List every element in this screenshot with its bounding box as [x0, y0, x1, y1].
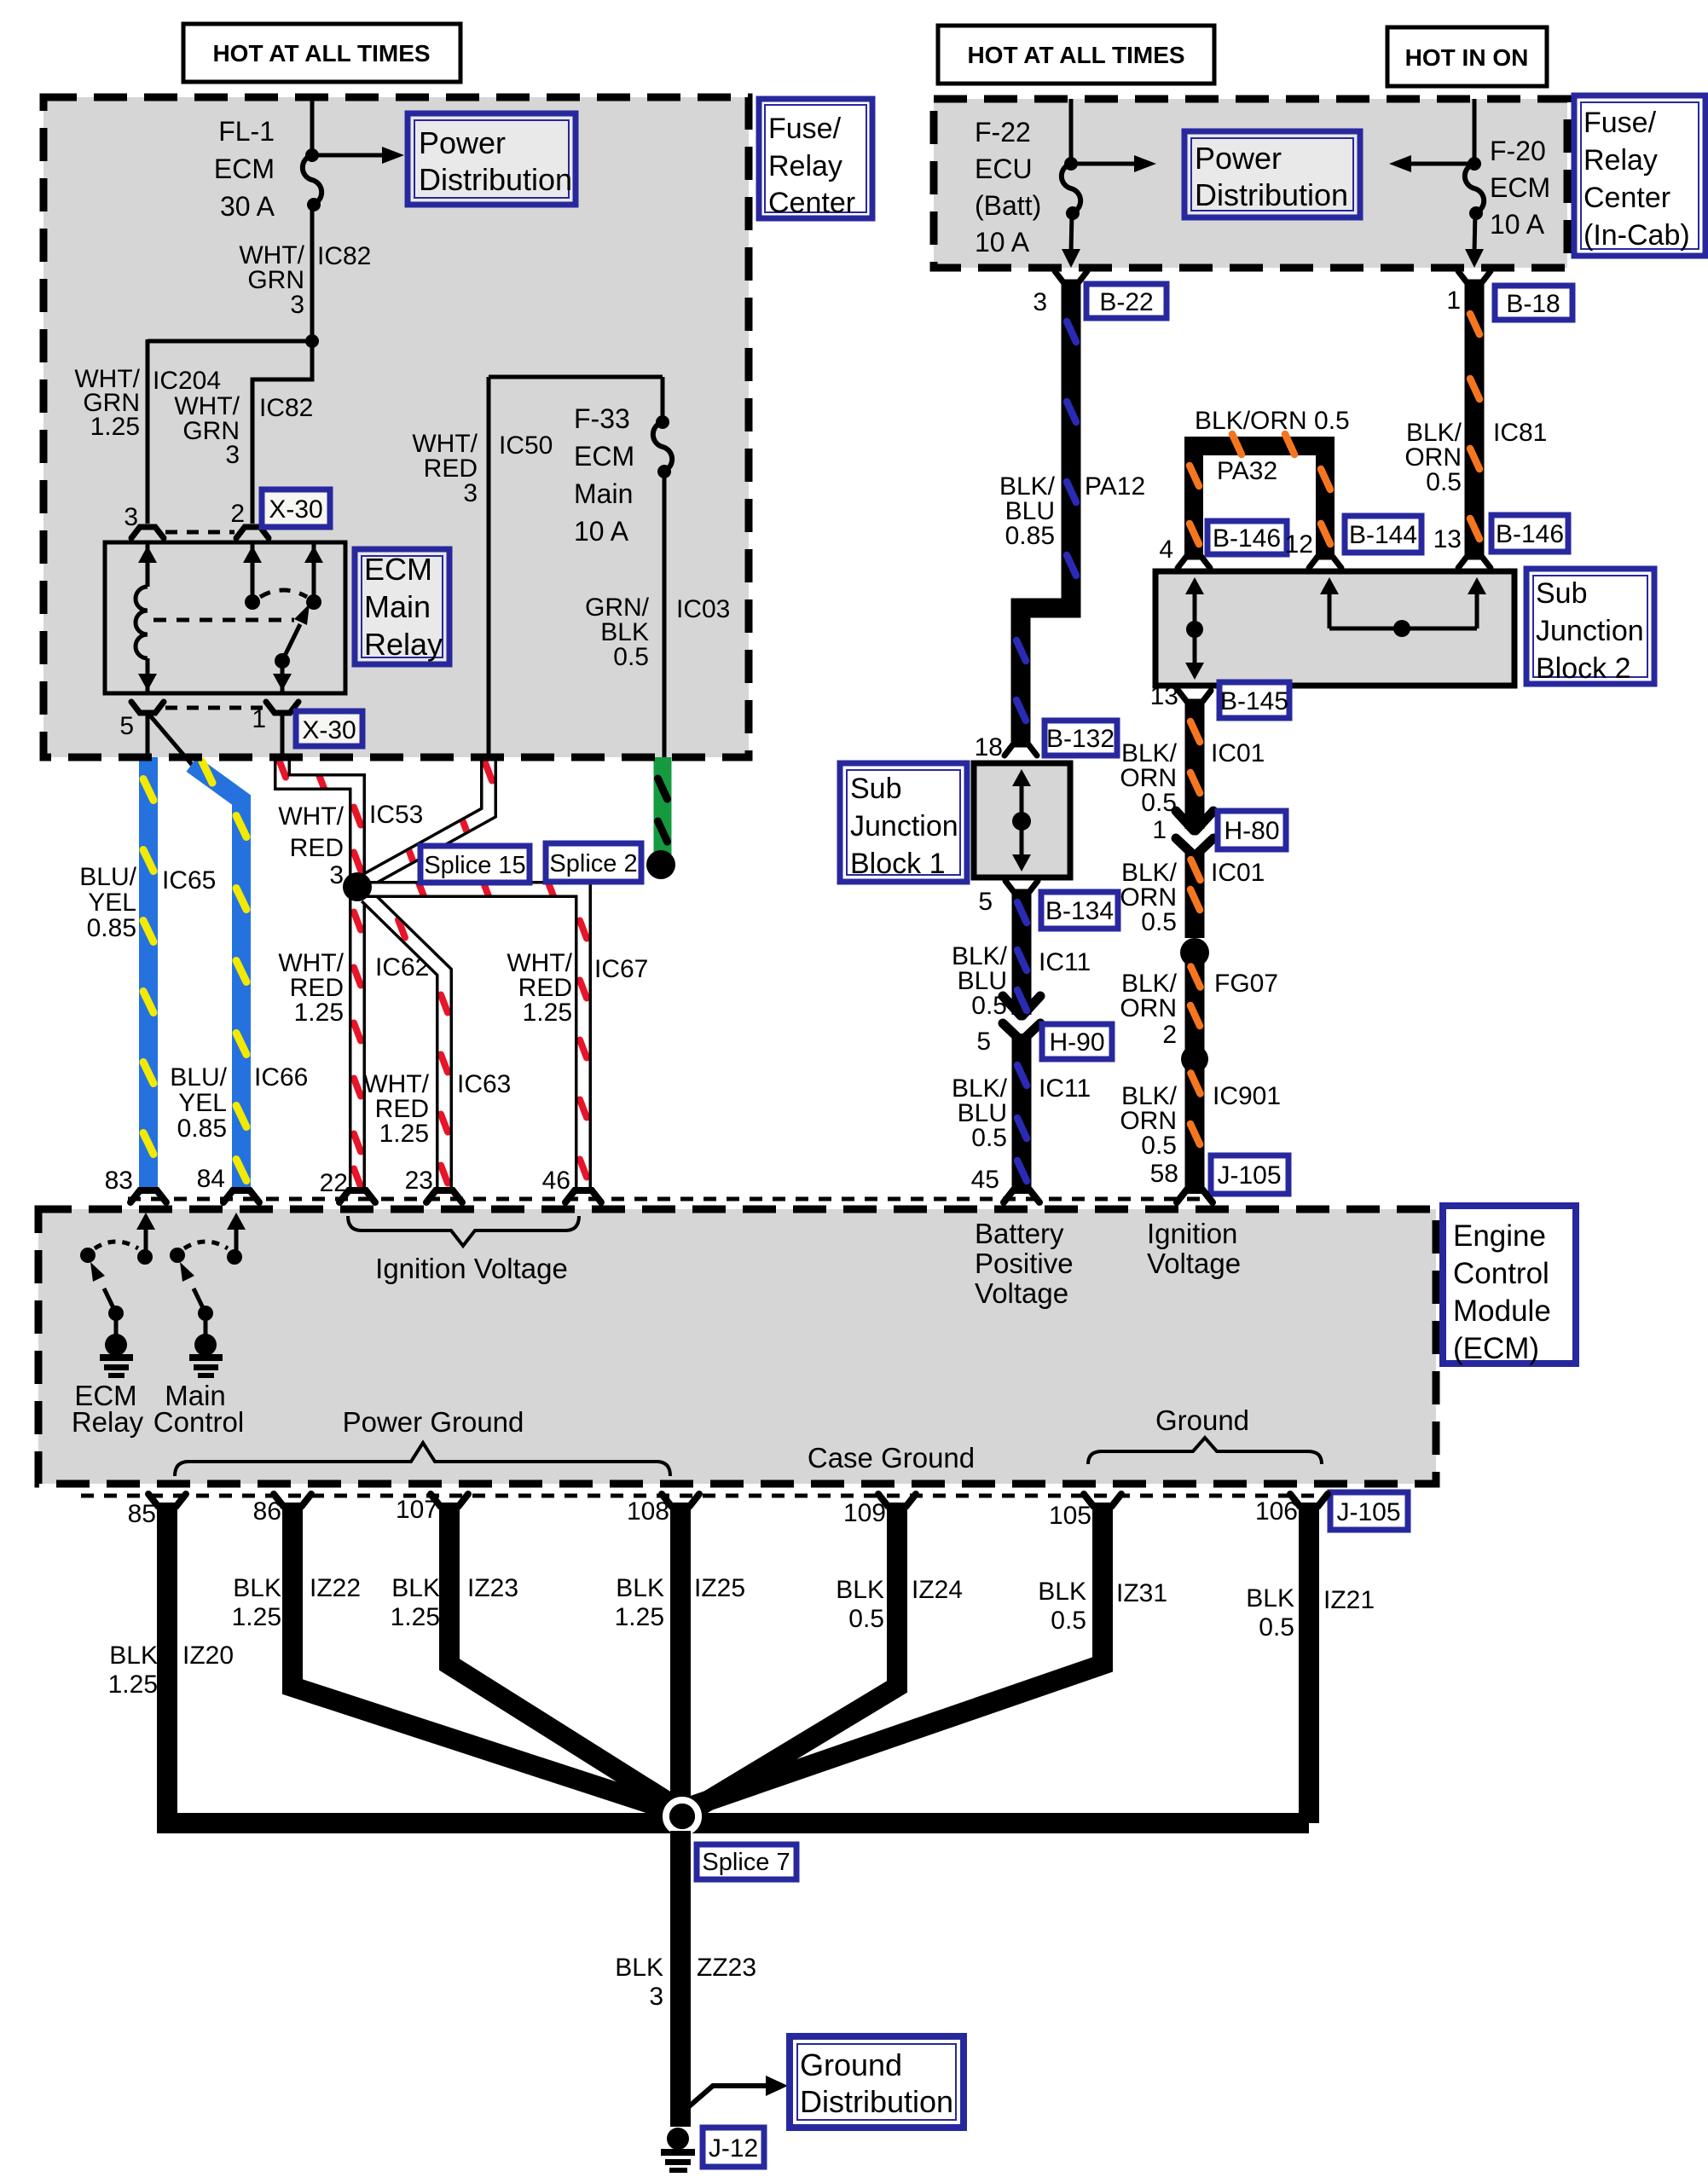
svg-text:IC63: IC63	[457, 1070, 511, 1098]
wire IC01 upper (BLK/ORN)	[1120, 701, 1265, 831]
pin 106	[1255, 1494, 1328, 1526]
node splice dot FG07 bottom	[1181, 1045, 1208, 1073]
svg-text:0.5: 0.5	[1141, 1132, 1177, 1160]
svg-text:B-146: B-146	[1496, 520, 1564, 548]
connector B-146 (pin 4)	[1159, 521, 1287, 568]
node splice dot FG07 top	[1180, 938, 1209, 967]
pin 58	[1177, 1190, 1213, 1202]
label box Splice 15	[420, 846, 530, 883]
dashed connector line X-30 top	[165, 530, 234, 535]
svg-text:J-105: J-105	[1336, 1498, 1400, 1526]
wire pin1 to box edge	[281, 713, 285, 757]
svg-text:106: 106	[1255, 1497, 1298, 1526]
svg-text:1.25: 1.25	[294, 999, 344, 1027]
dashed connector line X-30 bottom	[165, 706, 264, 710]
svg-text:IC82: IC82	[259, 394, 313, 422]
svg-text:13: 13	[1433, 525, 1462, 553]
svg-text:0.85: 0.85	[177, 1115, 227, 1143]
svg-text:ECM: ECM	[574, 441, 634, 472]
svg-text:0.85: 0.85	[87, 914, 136, 942]
svg-text:BLK: BLK	[233, 1574, 281, 1602]
svg-text:IZ20: IZ20	[182, 1642, 234, 1670]
label box Fuse/Relay Center (In-Cab)	[1574, 96, 1705, 256]
svg-text:J-12: J-12	[709, 2134, 758, 2163]
svg-text:BLK/ORN 0.5: BLK/ORN 0.5	[1195, 407, 1350, 435]
svg-text:Main: Main	[574, 478, 633, 509]
svg-text:Module: Module	[1453, 1294, 1551, 1328]
svg-text:5: 5	[978, 888, 993, 916]
svg-text:ECM: ECM	[364, 552, 432, 587]
svg-text:IC204: IC204	[153, 367, 221, 395]
svg-text:0.5: 0.5	[1426, 468, 1462, 496]
svg-text:Power Ground: Power Ground	[343, 1406, 524, 1438]
svg-text:58: 58	[1150, 1160, 1178, 1188]
svg-text:3: 3	[649, 1983, 663, 2011]
svg-text:F-22: F-22	[975, 117, 1031, 148]
pin 84	[197, 1165, 259, 1202]
sub junction block 1	[974, 763, 1070, 877]
svg-text:3: 3	[329, 861, 344, 889]
pin 85	[128, 1494, 186, 1528]
svg-text:Control: Control	[1453, 1257, 1549, 1290]
svg-text:3: 3	[225, 441, 240, 469]
svg-text:2: 2	[230, 500, 245, 528]
connector H-90	[976, 1023, 1112, 1059]
node Splice 15 dot	[343, 872, 372, 901]
wire pin5 diagonal branch	[149, 715, 194, 767]
connector H-80	[1152, 811, 1286, 855]
svg-text:Fuse/: Fuse/	[1584, 107, 1657, 139]
svg-text:10 A: 10 A	[574, 516, 629, 547]
svg-text:Case Ground: Case Ground	[808, 1442, 975, 1474]
brace Ground	[1088, 1438, 1322, 1464]
label HOT IN ON	[1387, 27, 1547, 86]
svg-text:PA32: PA32	[1217, 457, 1277, 485]
connector B-134	[978, 881, 1118, 929]
svg-text:Distribution: Distribution	[1195, 177, 1348, 212]
svg-text:ZZ23: ZZ23	[697, 1954, 756, 1982]
wire IC11 upper (BLK/BLU)	[952, 890, 1091, 1020]
svg-text:FG07: FG07	[1214, 970, 1278, 998]
connector B-132	[975, 721, 1117, 761]
wire IC11 lower (BLK/BLU)	[952, 1034, 1091, 1189]
svg-text:H-90: H-90	[1049, 1028, 1104, 1057]
svg-text:IZ21: IZ21	[1323, 1586, 1375, 1614]
svg-text:IZ25: IZ25	[694, 1574, 745, 1602]
svg-text:X-30: X-30	[269, 495, 322, 524]
svg-text:BLK: BLK	[391, 1574, 440, 1602]
wire IC66 (BLU/YEL)	[170, 761, 308, 1187]
svg-text:3: 3	[290, 291, 304, 319]
svg-text:Voltage: Voltage	[975, 1277, 1068, 1309]
svg-text:0.5: 0.5	[1051, 1607, 1086, 1635]
label box Fuse/Relay Center	[759, 99, 872, 219]
svg-text:HOT AT ALL TIMES: HOT AT ALL TIMES	[212, 40, 430, 67]
relay switch blade	[273, 604, 310, 693]
svg-text:IZ22: IZ22	[310, 1574, 361, 1602]
pin 23	[405, 1167, 462, 1202]
svg-text:13: 13	[1150, 682, 1178, 710]
Main control driver (right)	[153, 1213, 246, 1438]
svg-text:HOT AT ALL TIMES: HOT AT ALL TIMES	[967, 42, 1184, 68]
svg-text:ECM: ECM	[214, 153, 275, 184]
svg-text:BLU/: BLU/	[170, 1063, 227, 1091]
svg-text:HOT IN ON: HOT IN ON	[1405, 44, 1529, 71]
svg-text:Splice 2: Splice 2	[549, 850, 637, 877]
wire IC82 jog to pin 2	[252, 341, 312, 524]
svg-text:IC11: IC11	[1039, 1074, 1091, 1103]
svg-text:Block 1: Block 1	[850, 848, 946, 880]
svg-text:3: 3	[463, 479, 478, 507]
svg-text:ECM: ECM	[1490, 172, 1550, 203]
svg-text:23: 23	[405, 1167, 433, 1195]
svg-text:Block 2: Block 2	[1536, 652, 1631, 685]
svg-text:YEL: YEL	[178, 1089, 227, 1117]
svg-text:(In-Cab): (In-Cab)	[1584, 219, 1690, 252]
wire IC67 (WHT/RED)	[367, 881, 648, 1190]
relay fixed contact (right)	[312, 542, 316, 597]
svg-text:1.25: 1.25	[232, 1603, 281, 1631]
svg-text:46: 46	[542, 1167, 570, 1195]
pin 45	[971, 1166, 1039, 1202]
svg-text:1.25: 1.25	[379, 1120, 429, 1148]
svg-text:2: 2	[1162, 1021, 1177, 1049]
svg-text:0.5: 0.5	[971, 1124, 1007, 1152]
svg-text:Battery: Battery	[975, 1218, 1064, 1249]
svg-text:Relay: Relay	[1584, 144, 1658, 177]
svg-text:0.5: 0.5	[1141, 908, 1177, 936]
node Splice 7 ring	[666, 1800, 698, 1833]
arrow F-20 to Power Distribution	[1389, 155, 1474, 172]
dashed connector line ECM top	[128, 1197, 1211, 1202]
svg-text:Fuse/: Fuse/	[768, 113, 842, 145]
wire IC50 (WHT/RED)	[364, 757, 492, 882]
wire PA32 loop (BLK/ORN)	[1190, 407, 1350, 554]
dashed connector line ECM bottom	[81, 1494, 1327, 1498]
label box Power Distribution (right)	[1184, 131, 1360, 217]
connector B-18	[1446, 271, 1572, 320]
label box Engine Control Module (ECM)	[1443, 1206, 1576, 1365]
pin 105	[1049, 1494, 1121, 1530]
svg-text:IZ24: IZ24	[912, 1576, 963, 1604]
svg-text:45: 45	[971, 1166, 999, 1194]
svg-text:Control: Control	[153, 1406, 244, 1438]
svg-text:10 A: 10 A	[975, 227, 1030, 258]
svg-text:1.25: 1.25	[90, 413, 140, 441]
wire IC81 (BLK/ORN)	[1404, 281, 1547, 554]
svg-text:Power: Power	[419, 125, 506, 160]
fuse F-20	[1465, 99, 1550, 268]
svg-text:B-134: B-134	[1045, 897, 1114, 925]
pin 108	[627, 1494, 699, 1526]
svg-text:0.5: 0.5	[971, 992, 1007, 1020]
ECM text Battery Positive Voltage	[975, 1218, 1074, 1309]
fuse/relay center box border redraw	[43, 97, 749, 757]
svg-text:Ground: Ground	[1155, 1404, 1249, 1436]
svg-text:IC67: IC67	[594, 955, 648, 983]
relay contact dashed arc	[260, 590, 307, 597]
svg-text:ECU: ECU	[975, 153, 1033, 184]
svg-text:109: 109	[843, 1499, 886, 1527]
node junction dot	[305, 334, 319, 348]
svg-text:IC66: IC66	[254, 1063, 308, 1091]
label box Sub Junction Block 2	[1526, 569, 1654, 685]
svg-text:Ignition: Ignition	[1147, 1218, 1237, 1249]
svg-text:0.5: 0.5	[1259, 1613, 1294, 1642]
svg-text:(Batt): (Batt)	[975, 190, 1041, 221]
svg-text:108: 108	[627, 1497, 669, 1526]
svg-text:Junction: Junction	[850, 810, 958, 843]
svg-text:(ECM): (ECM)	[1453, 1332, 1539, 1365]
label box Splice 2	[546, 843, 641, 882]
svg-text:IC82: IC82	[317, 242, 371, 270]
wire pin5 to box edge	[146, 713, 150, 757]
svg-text:30 A: 30 A	[220, 191, 275, 222]
wire IC53 (WHT/RED)	[278, 757, 423, 889]
pin 86	[253, 1494, 311, 1526]
svg-text:PA12: PA12	[1085, 472, 1145, 501]
svg-text:BLK: BLK	[1246, 1584, 1294, 1613]
svg-text:0.5: 0.5	[848, 1605, 884, 1633]
svg-text:Engine: Engine	[1453, 1219, 1546, 1253]
label box J-12	[703, 2128, 764, 2167]
svg-text:BLK: BLK	[615, 1954, 663, 1982]
pin 83	[105, 1167, 166, 1202]
connector B-145	[1150, 682, 1289, 718]
svg-text:Ignition Voltage: Ignition Voltage	[375, 1253, 568, 1284]
svg-text:0.5: 0.5	[1141, 789, 1177, 817]
pin 109	[843, 1494, 916, 1527]
svg-text:BLK: BLK	[836, 1576, 884, 1604]
wire IZ23 (pin 107, BLK)	[391, 1504, 677, 1808]
wire IZ24 (pin 109, BLK)	[691, 1504, 963, 1811]
wire FG07 (BLK/ORN)	[1120, 953, 1278, 1059]
wire IZ21 (pin 106, BLK)	[1246, 1504, 1375, 1823]
wire IC82 fuse to junction	[310, 205, 315, 341]
svg-text:IC65: IC65	[162, 866, 216, 895]
wire IZ20 (pin 85, BLK)	[108, 1504, 1309, 1823]
svg-text:1: 1	[1152, 816, 1167, 844]
svg-text:1.25: 1.25	[615, 1603, 664, 1631]
label box J-105 (top)	[1150, 1155, 1288, 1194]
arrow to Power Distribution	[316, 147, 404, 164]
svg-text:IC03: IC03	[676, 595, 730, 623]
wire IC204 branch left	[148, 339, 312, 344]
svg-text:FL-1: FL-1	[218, 116, 275, 147]
svg-text:YEL: YEL	[88, 889, 136, 917]
svg-text:ORN: ORN	[1120, 994, 1177, 1022]
svg-text:Center: Center	[1584, 182, 1670, 214]
svg-text:IC11: IC11	[1039, 948, 1091, 976]
label box X-30 (top)	[262, 489, 330, 527]
wire IZ22 (pin 86, BLK)	[232, 1504, 674, 1811]
svg-text:B-132: B-132	[1046, 725, 1115, 753]
svg-text:Relay: Relay	[72, 1406, 144, 1438]
svg-text:Splice 15: Splice 15	[424, 852, 525, 879]
svg-text:B-22: B-22	[1099, 288, 1153, 316]
label box Power Distribution (left)	[408, 113, 576, 205]
connector B-22	[1033, 271, 1167, 318]
svg-text:Main: Main	[364, 589, 431, 624]
wire IC901 (BLK/ORN)	[1120, 1059, 1281, 1189]
svg-text:B-146: B-146	[1213, 524, 1281, 553]
ECM relay driver (left)	[72, 1213, 155, 1438]
svg-text:BLK: BLK	[109, 1642, 158, 1670]
svg-text:IC81: IC81	[1493, 419, 1547, 447]
svg-text:IC53: IC53	[369, 801, 423, 829]
label HOT AT ALL TIMES (right)	[938, 26, 1214, 84]
svg-text:WHT/: WHT/	[278, 802, 344, 831]
label HOT AT ALL TIMES (left)	[183, 24, 460, 82]
svg-text:IC50: IC50	[499, 431, 553, 460]
arrow F-22 to Power Distribution	[1071, 155, 1156, 172]
wire IC01 lower (BLK/ORN)	[1120, 849, 1265, 938]
wire IC62 (WHT/RED)	[278, 887, 429, 1189]
svg-text:3: 3	[1033, 288, 1047, 316]
svg-text:B-18: B-18	[1506, 290, 1560, 318]
svg-text:1.25: 1.25	[391, 1603, 440, 1631]
svg-text:12: 12	[1285, 530, 1313, 559]
svg-text:10 A: 10 A	[1490, 209, 1545, 240]
relay mechanical link (dashed)	[153, 618, 294, 622]
wire IC50 inside box	[412, 377, 663, 757]
svg-text:F-33: F-33	[574, 403, 630, 434]
svg-text:18: 18	[975, 733, 1003, 761]
ground symbol J-12	[661, 2128, 695, 2173]
svg-text:IZ31: IZ31	[1116, 1579, 1167, 1607]
svg-text:1: 1	[1446, 287, 1461, 315]
relay coil	[136, 542, 157, 693]
engine control module box (gray dashed)	[38, 1209, 1436, 1484]
svg-text:0.5: 0.5	[613, 643, 649, 671]
svg-text:IC901: IC901	[1213, 1082, 1281, 1110]
fuse F-22	[975, 99, 1080, 268]
fuse/relay center box (left, gray dashed)	[43, 97, 749, 757]
svg-text:5: 5	[976, 1028, 991, 1056]
relay box ECM Main Relay	[105, 542, 345, 693]
svg-text:X-30: X-30	[302, 716, 356, 744]
wire IC03 inside box	[585, 472, 730, 757]
svg-text:4: 4	[1159, 536, 1173, 564]
svg-text:Distribution: Distribution	[800, 2084, 953, 2119]
svg-text:3: 3	[124, 503, 138, 531]
fuse/relay center box (right, gray dashed)	[934, 99, 1567, 268]
connector X-30 pin 5	[131, 702, 164, 713]
fuse F-33	[574, 377, 672, 547]
connector B-144 (pin 12)	[1285, 516, 1421, 568]
ECM text Ignition Voltage (right)	[1147, 1218, 1241, 1279]
svg-text:IC01: IC01	[1211, 859, 1265, 887]
svg-text:BLK: BLK	[616, 1574, 664, 1602]
wire ZZ23 (BLK)	[615, 1831, 756, 2127]
pin 107	[396, 1494, 468, 1524]
label box ECM Main Relay	[355, 549, 449, 664]
wire GRN/BLK below box	[658, 757, 668, 854]
svg-text:Ground: Ground	[800, 2047, 902, 2082]
svg-text:IZ23: IZ23	[467, 1574, 518, 1602]
svg-text:Relay: Relay	[768, 150, 842, 182]
brace Ignition Voltage (top)	[348, 1216, 579, 1246]
svg-text:5: 5	[119, 712, 134, 740]
svg-text:Splice 7: Splice 7	[702, 1849, 790, 1876]
wire from top edge to fuse FL-1	[310, 97, 315, 155]
svg-text:83: 83	[105, 1167, 133, 1195]
label box J-105 (bottom)	[1330, 1492, 1408, 1530]
svg-text:H-80: H-80	[1224, 817, 1279, 845]
label box X-30 (bottom)	[296, 711, 362, 746]
node Splice 2 dot	[646, 850, 675, 879]
svg-text:RED: RED	[290, 834, 344, 862]
svg-text:Relay: Relay	[364, 627, 443, 662]
svg-text:BLK: BLK	[1038, 1578, 1086, 1606]
svg-text:Junction: Junction	[1536, 615, 1644, 647]
svg-text:85: 85	[128, 1500, 156, 1528]
svg-text:Sub: Sub	[1536, 577, 1588, 610]
svg-text:1.25: 1.25	[108, 1671, 158, 1699]
wire IZ31 (pin 105, BLK)	[687, 1504, 1167, 1808]
svg-text:F-20: F-20	[1490, 136, 1546, 166]
label box Ground Distribution	[790, 2036, 964, 2128]
wire IC65 (BLU/YEL)	[79, 757, 216, 1187]
svg-text:Center: Center	[768, 187, 855, 219]
svg-text:Sub: Sub	[850, 773, 902, 805]
connector B-146 (pin 13)	[1433, 515, 1568, 568]
svg-text:Voltage: Voltage	[1147, 1248, 1241, 1279]
svg-text:0.85: 0.85	[1005, 522, 1055, 550]
wire IZ25 (pin 108, BLK)	[615, 1504, 745, 1817]
label box Sub Junction Block 1	[840, 763, 967, 882]
fuse FL-1	[214, 116, 321, 222]
pin 22	[320, 1169, 375, 1202]
svg-text:Distribution: Distribution	[419, 162, 572, 197]
svg-text:J-105: J-105	[1217, 1161, 1281, 1190]
svg-text:B-145: B-145	[1220, 687, 1288, 715]
svg-text:B-144: B-144	[1349, 521, 1417, 549]
svg-text:105: 105	[1049, 1502, 1091, 1530]
wire PA12 (BLK/BLU)	[999, 281, 1145, 742]
brace Power Ground	[175, 1443, 670, 1476]
svg-text:Positive: Positive	[975, 1248, 1074, 1279]
arrow to Ground Distribution	[687, 2076, 788, 2108]
sub junction block 2	[1155, 571, 1514, 686]
label box Splice 7	[697, 1844, 796, 1879]
svg-text:IC01: IC01	[1211, 739, 1265, 767]
svg-text:BLU/: BLU/	[79, 863, 136, 891]
svg-text:Power: Power	[1195, 141, 1282, 176]
relay fixed contact (pin 2)	[251, 542, 255, 597]
wire IC63 (WHT/RED)	[363, 896, 511, 1189]
svg-text:1.25: 1.25	[523, 999, 572, 1027]
svg-text:84: 84	[197, 1165, 225, 1193]
pin 46	[542, 1167, 601, 1202]
connector X-30 pin 1	[266, 702, 298, 713]
